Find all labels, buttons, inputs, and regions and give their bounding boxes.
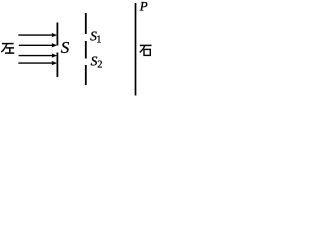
arrow 2 (19, 43, 57, 47)
svg-text:1: 1 (96, 35, 101, 46)
screen line (135, 3, 137, 96)
barrier 2 top segment (above slit S1) (85, 13, 87, 34)
label 左 (left) hanzi drawn as strokes (1, 44, 14, 54)
arrow 4 (18, 61, 57, 65)
svg-text:S: S (61, 38, 70, 57)
arrow 3 (19, 53, 58, 57)
barrier 1 lower segment (below slit S) (56, 53, 58, 78)
label S2 (slit S2) (91, 54, 103, 71)
barrier 1 upper segment (above slit S) (56, 23, 58, 46)
barrier 2 middle segment (between S1 and S2) (85, 41, 87, 59)
arrow 1 (18, 33, 57, 37)
label 右 (right) hanzi drawn as strokes (140, 45, 152, 55)
svg-text:P: P (139, 0, 148, 13)
label S1 (slit S1) (90, 28, 101, 45)
svg-text:2: 2 (97, 60, 102, 71)
barrier 2 bottom segment (below slit S2) (85, 65, 87, 85)
